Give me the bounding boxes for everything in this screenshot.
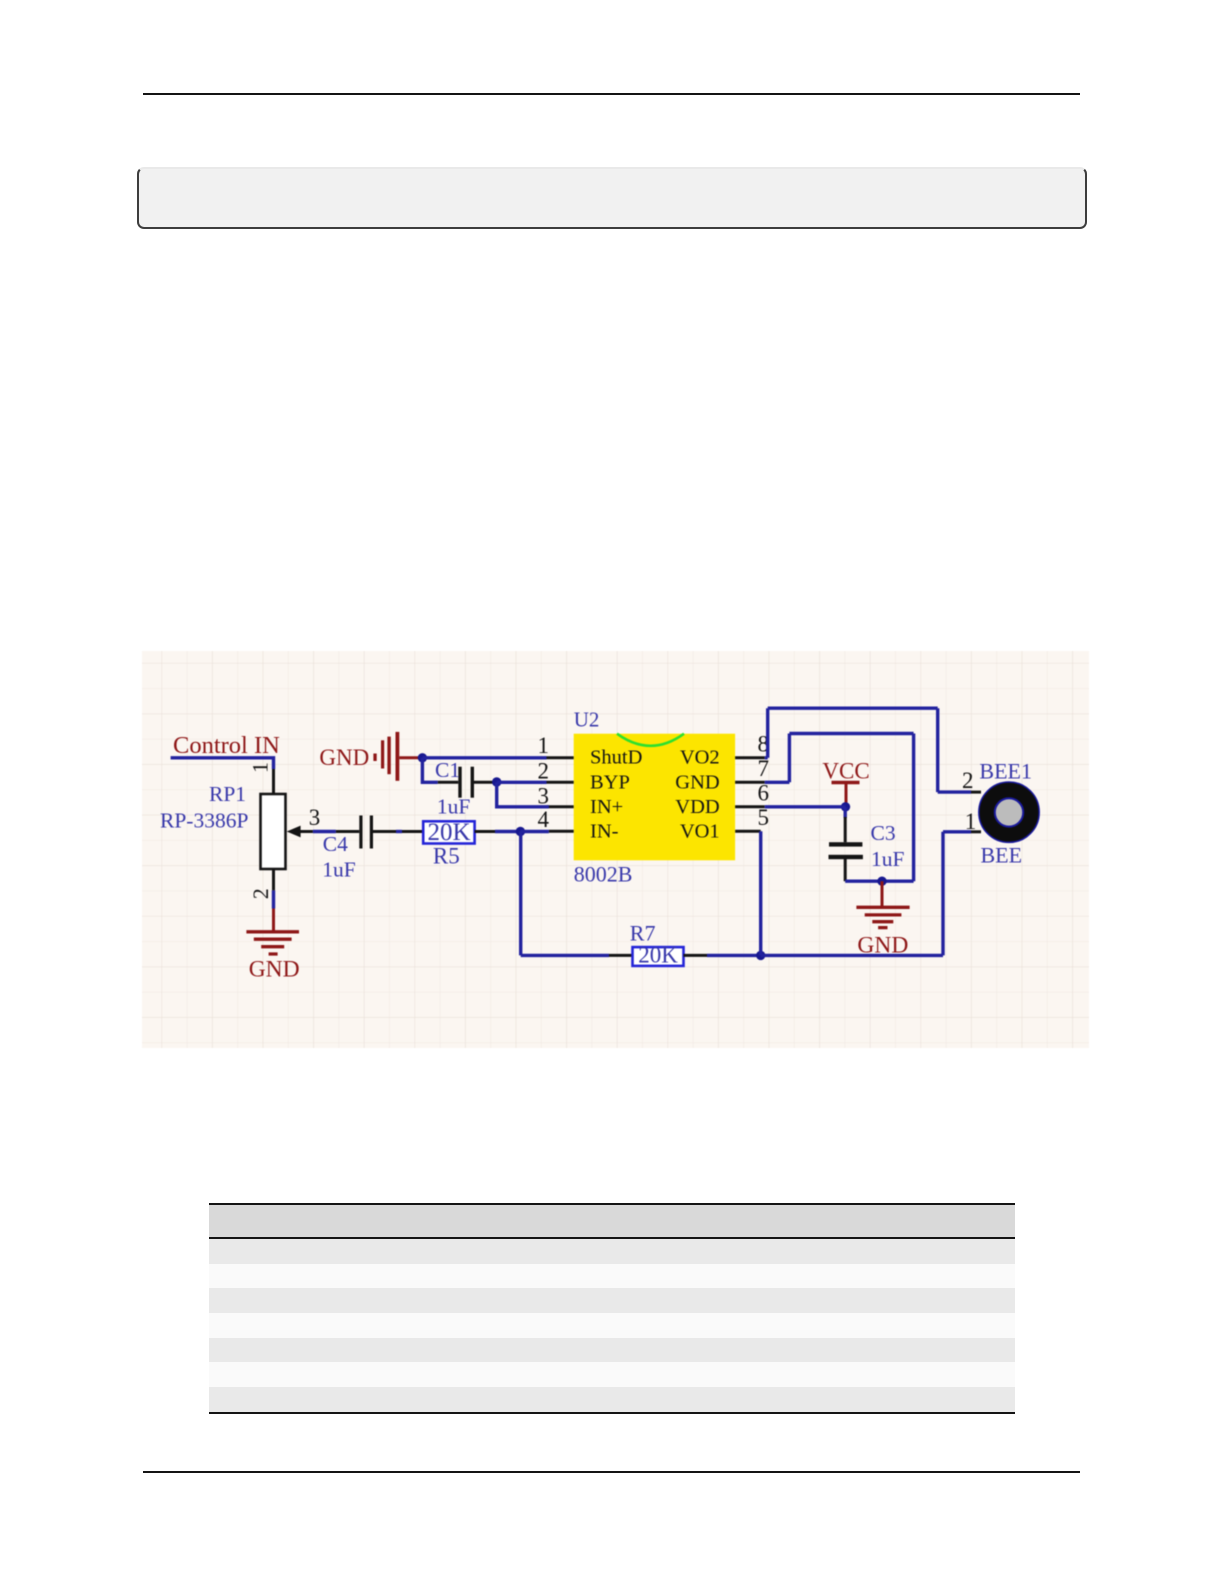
svg-text:ShutD: ShutD: [590, 747, 642, 769]
wire dash: [396, 830, 402, 833]
ground lead to node: [399, 756, 422, 759]
wire VO1 node to BEE pin 1 riser: [761, 832, 971, 956]
svg-text:GND: GND: [675, 772, 719, 794]
svg-text:VCC: VCC: [822, 759, 869, 784]
svg-text:C3: C3: [871, 821, 896, 845]
lead C3 bottom: [844, 859, 847, 881]
wire pin 5 down to node: [759, 831, 762, 955]
lead BEE1 pin 2: [971, 791, 981, 794]
wire pin 8 net to BEE pin 2: [765, 708, 971, 792]
pin 8 stub U2: [735, 756, 765, 759]
pin 2 lead of RP1: [272, 869, 275, 890]
ground lead RP1: [272, 909, 275, 931]
junction VO1 node: [756, 951, 765, 960]
wire IN- node down to R7 net: [519, 832, 522, 956]
svg-text:1: 1: [538, 733, 550, 758]
U2 notch arc: [617, 734, 684, 746]
svg-text:6: 6: [758, 781, 770, 806]
svg-text:1: 1: [248, 762, 273, 773]
wire Control IN to RP1 pin 1: [171, 758, 274, 769]
speaker BEE1 inner: [995, 798, 1023, 826]
svg-text:3: 3: [538, 784, 550, 809]
lead VDD node to C3: [844, 807, 847, 818]
svg-text:C1: C1: [435, 758, 460, 782]
svg-text:BYP: BYP: [590, 772, 630, 794]
resistor R5 body: [423, 821, 474, 843]
wire RP1 wiper to C4: [313, 830, 336, 833]
svg-text:7: 7: [758, 756, 770, 781]
svg-text:1uF: 1uF: [322, 858, 356, 882]
wiper arrow of RP1: [287, 826, 301, 838]
wire C3 to ground node: [845, 880, 913, 883]
lead C1 to BYP node: [474, 781, 495, 784]
svg-text:2: 2: [962, 768, 974, 793]
ground symbol (RP1): [246, 932, 299, 954]
svg-text:GND: GND: [249, 957, 300, 983]
svg-text:BEE: BEE: [981, 842, 1023, 867]
framed gray box: [137, 167, 1087, 229]
wire R5 to IN- node: [495, 830, 520, 833]
capacitor C1: [458, 767, 461, 798]
junction IN- node: [516, 827, 525, 836]
lead to C1 left plate: [438, 781, 459, 784]
ground symbol (sideways): [373, 754, 376, 762]
svg-text:BEE1: BEE1: [979, 759, 1032, 784]
lead to C4 left plate: [336, 830, 359, 833]
pin 4 stub U2: [549, 830, 574, 833]
table: [209, 1203, 1015, 1414]
bottom rule: [143, 1471, 1080, 1473]
schematic: [142, 651, 1089, 1048]
svg-text:2: 2: [248, 888, 273, 899]
wire node down to C1: [422, 758, 437, 783]
ground symbol (C3): [856, 907, 909, 927]
svg-text:20K: 20K: [427, 819, 470, 846]
capacitor C4: [359, 816, 362, 849]
wire node down to pin 3: [497, 782, 549, 807]
ground stem (C3): [881, 881, 884, 907]
junction ShutD node: [418, 753, 427, 762]
pin 5 stub: [735, 830, 761, 833]
svg-text:R7: R7: [630, 921, 656, 946]
svg-text:Control IN: Control IN: [173, 732, 280, 759]
power VCC bar: [832, 781, 860, 785]
svg-text:R5: R5: [433, 844, 460, 869]
wire pin 7 net: [765, 734, 914, 882]
svg-text:1uF: 1uF: [871, 847, 905, 871]
capacitor C3: [829, 842, 862, 846]
svg-text:RP-3386P: RP-3386P: [160, 809, 248, 833]
lead R5 to node: [475, 830, 495, 833]
svg-text:GND: GND: [857, 933, 908, 959]
pin 2 stub U2: [547, 781, 574, 784]
lead C4 to R5: [373, 830, 396, 833]
svg-text:VO1: VO1: [680, 821, 720, 843]
wire pin 6 to VDD node: [765, 805, 846, 808]
svg-text:5: 5: [758, 805, 770, 830]
svg-text:20K: 20K: [638, 943, 678, 968]
svg-text:1uF: 1uF: [437, 795, 471, 819]
svg-text:IN+: IN+: [590, 796, 623, 818]
svg-text:4: 4: [538, 807, 550, 832]
wire node to pin 2: [497, 781, 547, 784]
lead into R7: [609, 954, 633, 957]
junction BYP node: [492, 777, 501, 786]
pin 3 stub U2: [547, 805, 574, 808]
wire RP1 pin 2 down: [272, 890, 275, 908]
pin 7 stub U2: [735, 781, 765, 784]
resistor R7 body: [633, 947, 684, 966]
wire R7 to VO1 node: [707, 954, 761, 957]
svg-text:VO2: VO2: [680, 747, 720, 769]
pin 1 stub U2: [547, 756, 574, 759]
svg-text:1: 1: [965, 809, 977, 834]
lead into R5: [402, 830, 423, 833]
op-amp U2 body: [574, 734, 735, 861]
svg-text:C4: C4: [323, 832, 348, 856]
svg-text:VDD: VDD: [675, 796, 719, 818]
svg-text:8002B: 8002B: [574, 862, 633, 887]
power VCC stem: [845, 783, 848, 807]
junction VDD node: [841, 802, 850, 811]
top rule: [143, 93, 1080, 95]
resistor RP1 body: [261, 794, 286, 869]
wire node to pin 1: [422, 756, 546, 759]
lead R7 right: [684, 954, 708, 957]
wire node to pin 4: [520, 830, 549, 833]
pin 1 lead of RP1: [272, 769, 275, 794]
junction ground node: [877, 877, 886, 886]
svg-text:U2: U2: [574, 708, 600, 732]
svg-text:RP1: RP1: [209, 782, 246, 806]
svg-text:3: 3: [309, 805, 321, 830]
svg-text:IN-: IN-: [590, 821, 619, 843]
pin 6 stub U2: [735, 805, 765, 808]
svg-text:GND: GND: [319, 745, 369, 770]
speaker BEE1 outer: [979, 782, 1039, 842]
lead BEE1 pin 1: [971, 830, 981, 833]
svg-text:2: 2: [538, 759, 550, 784]
wire R7 net horizontal: [521, 954, 609, 957]
